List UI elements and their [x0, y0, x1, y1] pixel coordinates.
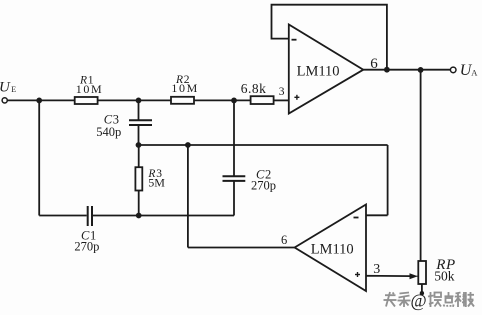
svg-text:A: A	[471, 68, 478, 78]
svg-text:E: E	[11, 85, 16, 94]
svg-text:3: 3	[279, 86, 285, 98]
resistor R3	[138, 145, 140, 167]
op-amp U1 LM110 triangle	[289, 25, 364, 114]
opamp1 feedback loop wire	[272, 5, 387, 70]
opamp2 minus input wire	[366, 214, 388, 216]
junction dot C3-R3-N1	[136, 142, 142, 148]
potentiometer RP	[418, 261, 426, 284]
opamp2 plus input wire to RP wiper	[366, 275, 411, 277]
svg-text:540p: 540p	[96, 125, 121, 139]
opamp1 minus marker	[292, 39, 297, 41]
bottom rail right of C1	[93, 215, 234, 217]
svg-text:3: 3	[373, 262, 380, 277]
watermark text (头条@探点科技 drawn as strokes)	[384, 292, 475, 307]
RP bottom terminal dot	[420, 291, 424, 295]
svg-text:5M: 5M	[148, 175, 165, 189]
vertical wire node N1 to opamp2 output	[187, 145, 189, 248]
left vertical wire from input node	[38, 100, 40, 215]
svg-text:6: 6	[281, 233, 287, 247]
resistor R1	[75, 97, 98, 104]
junction dot opamp1 feedback tap	[384, 67, 390, 73]
junction dot RP branch tap	[418, 67, 424, 73]
opamp2 plus marker	[355, 274, 360, 276]
opamp2 output wire	[188, 247, 295, 249]
junction dot input node	[36, 98, 42, 104]
glyph ji	[463, 292, 465, 307]
glyph tan	[430, 292, 432, 307]
capacitor C2	[233, 100, 235, 176]
input terminal UE	[2, 98, 7, 103]
junction dot R3 bottom	[136, 213, 142, 219]
svg-text:6.8k: 6.8k	[241, 81, 267, 96]
svg-text:U: U	[0, 79, 11, 95]
arrowhead RP wiper	[410, 273, 418, 279]
svg-text:10M: 10M	[76, 82, 103, 96]
output terminal UA	[450, 67, 456, 73]
svg-text:6: 6	[370, 56, 378, 72]
opamp1 output wire	[363, 69, 450, 71]
junction dot N1 / opamp2 output branch	[185, 142, 191, 148]
opamp1 plus marker	[294, 96, 299, 98]
glyph ke	[456, 293, 461, 294]
glyph dian	[448, 292, 450, 296]
opamp2 minus marker	[354, 217, 359, 219]
capacitor C3	[138, 100, 140, 120]
resistor R2	[171, 97, 194, 104]
vertical wire output to RP	[420, 70, 422, 261]
op-amp U2 LM110 triangle	[295, 205, 366, 292]
junction dot R1-R2 / C3	[136, 98, 142, 104]
svg-text:@: @	[411, 291, 427, 311]
svg-text:50k: 50k	[434, 269, 455, 284]
wire 6.8k to opamp1 plus input	[274, 99, 289, 101]
node rail N1	[139, 144, 388, 146]
svg-text:270p: 270p	[74, 239, 99, 253]
svg-text:LM110: LM110	[297, 64, 340, 80]
resistor 6.8k	[251, 96, 274, 104]
svg-text:LM110: LM110	[311, 242, 354, 258]
wire input to R1	[7, 99, 74, 101]
capacitor C1	[87, 206, 89, 226]
right vertical wire N1 to opamp2 minus	[387, 145, 389, 215]
svg-text:270p: 270p	[251, 178, 276, 192]
bottom rail left of C1	[39, 215, 86, 217]
junction dot R2-6.8k / C2	[231, 98, 237, 104]
wire R1 to R2	[98, 99, 171, 101]
wire R2 to 6.8k	[194, 99, 251, 101]
glyph tou	[385, 294, 396, 296]
glyph tiao	[400, 293, 410, 294]
svg-text:10M: 10M	[171, 81, 198, 95]
